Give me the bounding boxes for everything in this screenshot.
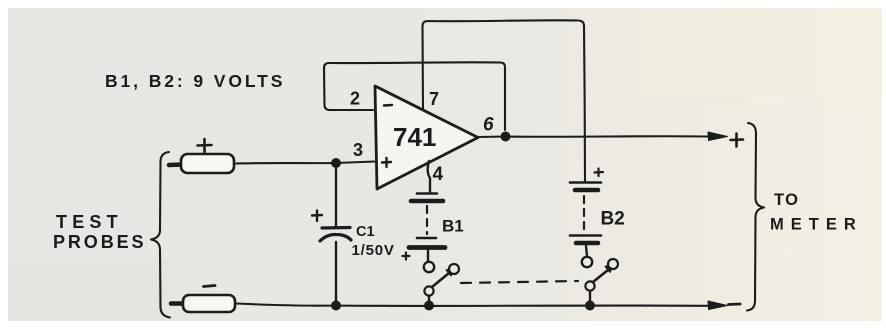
pin 4 xyxy=(433,164,444,185)
svg-text:B1: B1 xyxy=(442,217,464,236)
pin 2 xyxy=(350,89,360,109)
svg-text:3: 3 xyxy=(353,140,363,160)
label: probe plus xyxy=(198,139,212,152)
label: B1 plus xyxy=(403,253,410,260)
svg-text:1/50V: 1/50V xyxy=(352,242,395,259)
svg-text:2: 2 xyxy=(350,89,360,109)
label: TO METER xyxy=(770,191,863,234)
svg-text:6: 6 xyxy=(483,115,494,136)
probe P2 (negative test probe) xyxy=(171,295,235,312)
junction node: S1b on bottom rail xyxy=(585,301,595,311)
arrow: bottom rail to meter minus xyxy=(708,301,728,310)
wire: feedback output node to pin 2 xyxy=(324,62,505,130)
wire: bottom rail xyxy=(236,304,711,306)
label: C1 value 1/50V xyxy=(352,242,395,259)
op-amp non-inverting input sign xyxy=(382,158,391,167)
switch S1a (B1 pole) xyxy=(424,264,459,302)
svg-text:4: 4 xyxy=(433,164,444,185)
pin 3 xyxy=(353,140,363,160)
brace: to meter xyxy=(747,123,764,311)
label: B2 plus xyxy=(595,169,604,177)
op-amp inverting input sign xyxy=(384,104,392,107)
label: meter plus xyxy=(731,134,744,147)
label: B1,B2 9 volts note xyxy=(105,71,285,91)
junction node: output pin 6 xyxy=(501,132,511,142)
junction node: pin3 / C1 / probe xyxy=(331,158,341,168)
battery B1 xyxy=(409,194,445,273)
junction node: C1 bottom rail xyxy=(331,301,341,311)
label: C1 plus xyxy=(312,211,322,222)
probe P1 (positive test probe) xyxy=(169,154,234,173)
label: U1 value 741 xyxy=(393,122,436,152)
wire: pin7 to top rail to B2 positive xyxy=(423,20,586,181)
wire: switch gang dashed link xyxy=(461,281,578,283)
op-amp U1 741 xyxy=(375,86,478,189)
wire: C1 branch bottom xyxy=(335,242,337,305)
svg-text:TEST: TEST xyxy=(56,212,123,232)
wire: output pin 6 to meter plus xyxy=(478,135,711,138)
pin 7 xyxy=(429,89,439,109)
label: B1 xyxy=(442,217,464,236)
switch S1b (B2 pole) xyxy=(585,259,618,302)
svg-text:PROBES: PROBES xyxy=(53,232,146,252)
wire: C1 branch top xyxy=(335,163,337,227)
label: C1 xyxy=(356,224,375,240)
svg-text:B2: B2 xyxy=(601,209,625,230)
wire: pin 4 to B1 xyxy=(428,161,430,192)
svg-text:741: 741 xyxy=(393,122,436,152)
brace: test probes xyxy=(151,152,170,318)
svg-text:B1, B2: 9 VOLTS: B1, B2: 9 VOLTS xyxy=(105,71,285,91)
pin 6 xyxy=(483,115,494,136)
wire: pin 3 input rail from top probe xyxy=(236,162,375,164)
label: meter minus xyxy=(729,303,741,306)
label: probe minus xyxy=(204,286,216,287)
battery B2 xyxy=(570,183,601,268)
arrow: output to meter plus xyxy=(708,132,728,141)
svg-text:TO: TO xyxy=(774,191,799,209)
svg-text:C1: C1 xyxy=(356,224,375,240)
label: TEST PROBES xyxy=(53,212,146,252)
junction node: S1a on bottom rail xyxy=(424,301,434,311)
svg-text:7: 7 xyxy=(429,89,439,109)
capacitor C1 xyxy=(320,228,351,242)
svg-text:METER: METER xyxy=(770,216,863,234)
label: B2 xyxy=(601,209,625,230)
